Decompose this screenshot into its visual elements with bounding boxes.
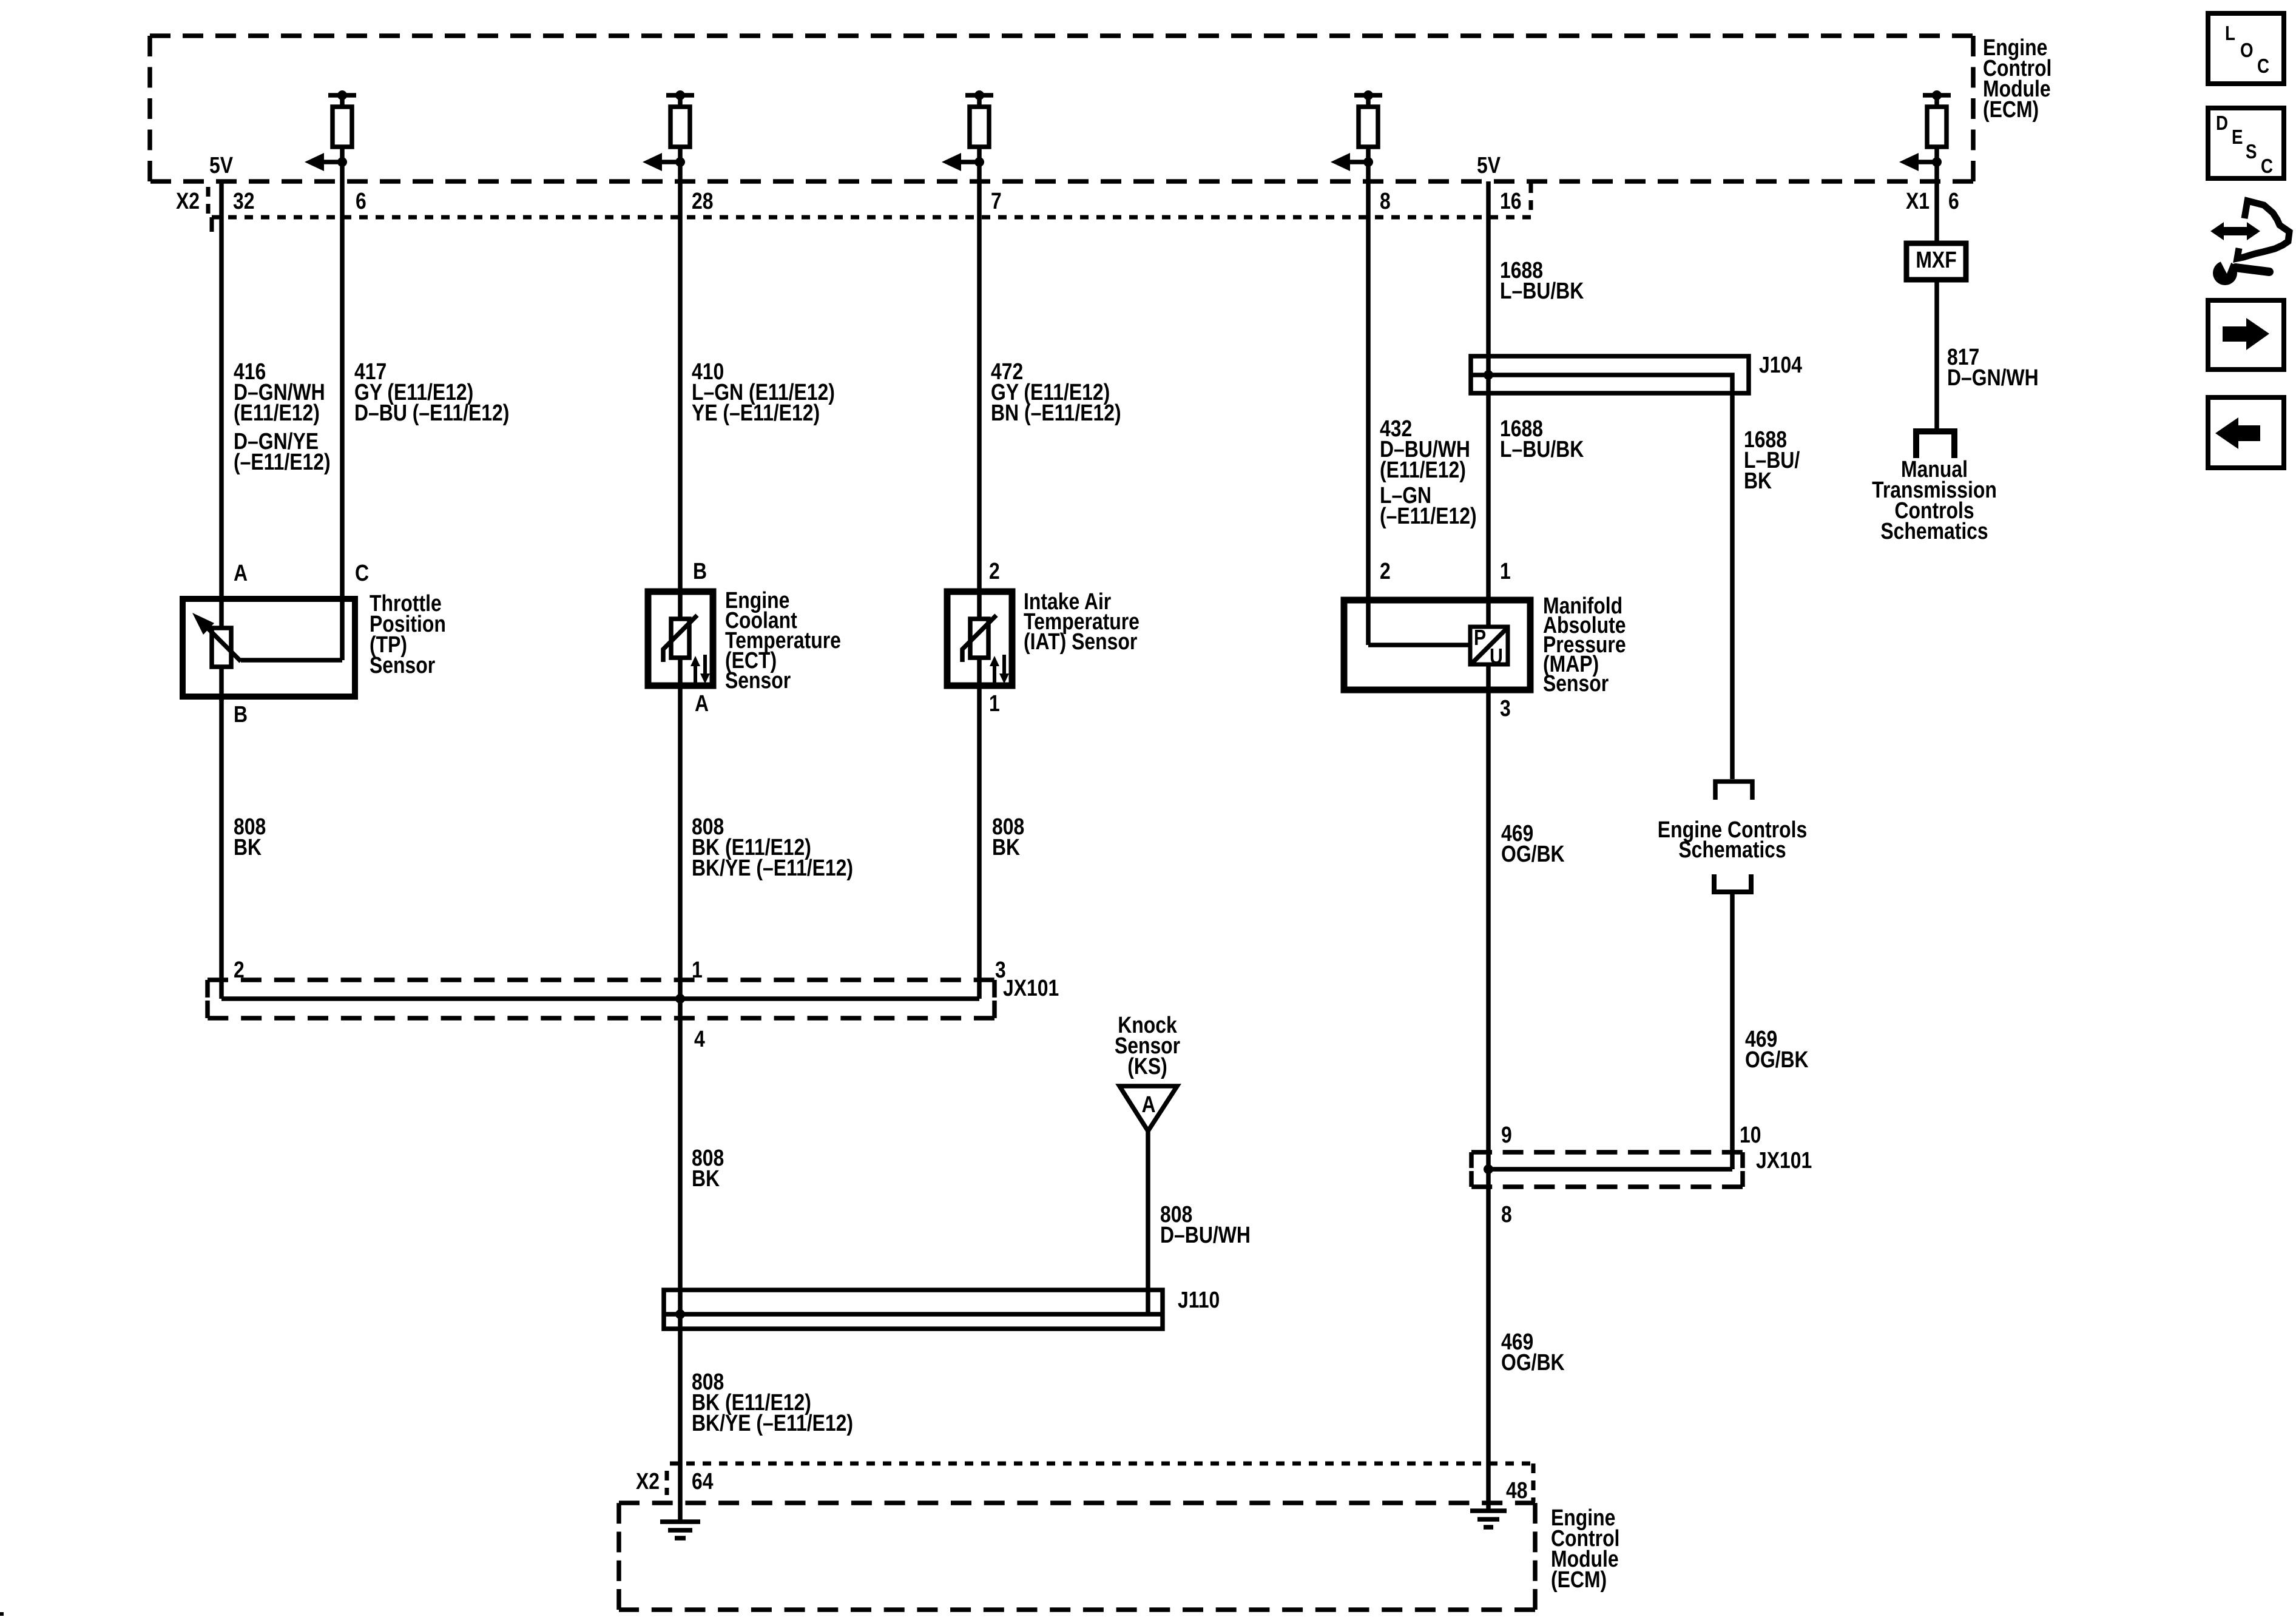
- svg-text:64: 64: [692, 1468, 714, 1494]
- svg-text:MXF: MXF: [1916, 247, 1956, 272]
- svg-text:C: C: [2257, 55, 2269, 78]
- svg-text:(KS): (KS): [1127, 1053, 1167, 1079]
- svg-text:9: 9: [1501, 1122, 1512, 1147]
- svg-text:6: 6: [356, 188, 366, 214]
- svg-text:6: 6: [1948, 188, 1959, 214]
- svg-text:Schematics: Schematics: [1678, 837, 1786, 862]
- svg-text:(–E11/E12): (–E11/E12): [234, 449, 331, 474]
- svg-text:(–E11/E12): (–E11/E12): [1380, 503, 1477, 528]
- svg-text:OG/BK: OG/BK: [1501, 841, 1565, 866]
- svg-text:Schematics: Schematics: [1880, 518, 1988, 544]
- svg-text:(ECM): (ECM): [1983, 96, 2039, 122]
- svg-text:OG/BK: OG/BK: [1501, 1349, 1565, 1375]
- svg-text:2: 2: [989, 558, 1000, 584]
- svg-text:O: O: [2240, 39, 2254, 62]
- svg-text:L: L: [2225, 22, 2235, 45]
- svg-text:B: B: [234, 701, 248, 727]
- svg-text:BK: BK: [992, 834, 1020, 860]
- svg-text:P: P: [1474, 626, 1486, 650]
- svg-text:10: 10: [1740, 1122, 1761, 1147]
- svg-text:D–BU (–E11/E12): D–BU (–E11/E12): [354, 400, 509, 425]
- svg-text:D–BU/WH: D–BU/WH: [1160, 1222, 1251, 1247]
- svg-text:X2: X2: [636, 1468, 660, 1494]
- svg-text:1: 1: [1500, 558, 1511, 584]
- svg-text:S: S: [2246, 141, 2257, 163]
- svg-text:32: 32: [233, 188, 255, 214]
- svg-text:J104: J104: [1759, 352, 1802, 377]
- svg-text:OG/BK: OG/BK: [1745, 1047, 1809, 1072]
- svg-text:BK: BK: [692, 1166, 720, 1191]
- svg-text:JX101: JX101: [1003, 975, 1059, 1001]
- svg-text:BK/YE (–E11/E12): BK/YE (–E11/E12): [692, 1410, 853, 1436]
- svg-text:Sensor: Sensor: [370, 652, 435, 678]
- svg-text:(E11/E12): (E11/E12): [234, 400, 320, 425]
- svg-text:X1: X1: [1906, 188, 1930, 214]
- svg-text:D: D: [2216, 112, 2228, 135]
- svg-text:7: 7: [991, 188, 1002, 214]
- svg-text:Sensor: Sensor: [1543, 670, 1609, 696]
- svg-text:(IAT) Sensor: (IAT) Sensor: [1024, 629, 1138, 654]
- svg-text:U: U: [1490, 645, 1503, 669]
- svg-text:3: 3: [1500, 695, 1511, 721]
- svg-text:5V: 5V: [209, 152, 234, 178]
- svg-text:1: 1: [989, 690, 1000, 716]
- svg-text:J110: J110: [1178, 1287, 1220, 1312]
- svg-text:(E11/E12): (E11/E12): [1380, 457, 1466, 482]
- svg-text:BK/YE (–E11/E12): BK/YE (–E11/E12): [692, 855, 853, 880]
- svg-text:28: 28: [692, 188, 714, 214]
- svg-text:8: 8: [1501, 1201, 1512, 1227]
- svg-text:X2: X2: [176, 188, 200, 214]
- svg-text:A: A: [234, 560, 248, 586]
- svg-text:L–BU/BK: L–BU/BK: [1500, 278, 1584, 303]
- svg-text:BN (–E11/E12): BN (–E11/E12): [991, 400, 1121, 425]
- svg-text:(ECM): (ECM): [1551, 1567, 1607, 1592]
- svg-text:16: 16: [1500, 188, 1522, 214]
- svg-text:BK: BK: [234, 834, 262, 860]
- svg-text:C: C: [355, 560, 369, 586]
- svg-text:48: 48: [1506, 1477, 1528, 1503]
- svg-text:8: 8: [1380, 188, 1391, 214]
- svg-text:B: B: [693, 558, 707, 584]
- svg-text:4: 4: [694, 1026, 705, 1052]
- svg-text:A: A: [1141, 1092, 1155, 1117]
- svg-text:2: 2: [1380, 558, 1391, 584]
- svg-text:YE (–E11/E12): YE (–E11/E12): [692, 400, 820, 425]
- svg-text:C: C: [2261, 155, 2273, 178]
- svg-text:BK: BK: [1744, 468, 1772, 493]
- svg-text:L–BU/BK: L–BU/BK: [1500, 436, 1584, 462]
- svg-text:A: A: [695, 690, 709, 716]
- svg-text:Sensor: Sensor: [725, 667, 791, 693]
- svg-text:D–GN/WH: D–GN/WH: [1947, 365, 2039, 390]
- svg-text:5V: 5V: [1477, 152, 1501, 178]
- svg-text:E: E: [2232, 126, 2243, 149]
- svg-text:JX101: JX101: [1756, 1147, 1812, 1173]
